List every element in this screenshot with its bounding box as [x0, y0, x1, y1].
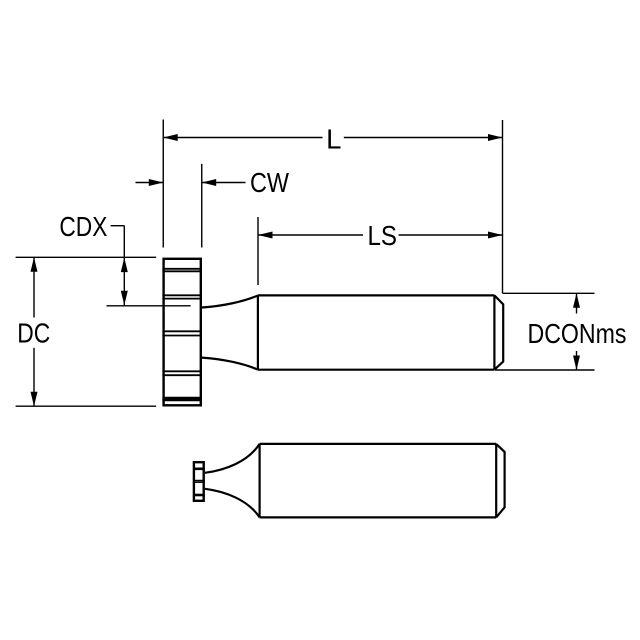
- dimension line DCONms lower segment: [576, 351, 578, 370]
- svg-text:CW: CW: [250, 167, 289, 198]
- dimension line CW right stub: [202, 182, 246, 184]
- keyseat depth line: [107, 305, 191, 307]
- extension line DCONms bottom: [495, 369, 595, 371]
- cutter tooth line 2b: [162, 298, 202, 300]
- cutter tooth line 3a: [162, 330, 202, 332]
- extension line DC top: [16, 256, 157, 258]
- cutter head body (front view): [164, 259, 201, 406]
- svg-text:DC: DC: [17, 317, 50, 348]
- shank bottom edge (side view): [260, 516, 497, 518]
- shank top edge (side view): [260, 443, 497, 445]
- cutter side tooth line 2a: [193, 480, 205, 482]
- neck top curve (front view): [202, 296, 258, 308]
- cutter tooth line 2a: [162, 294, 202, 296]
- extension line right (L/LS): [502, 120, 504, 293]
- neck bottom curve (side view): [205, 489, 260, 518]
- dimension line DC lower segment: [33, 348, 35, 406]
- extension line DC bottom: [16, 405, 157, 407]
- dimension line DCONms upper segment: [576, 293, 578, 313]
- extension line left (L/CW): [162, 120, 164, 248]
- shank bottom edge (front view): [258, 369, 495, 371]
- cutter side tooth line 2b: [193, 481, 205, 483]
- dimension line L left segment: [163, 137, 322, 139]
- arrowhead CW left: [149, 179, 163, 186]
- shank chamfer tangent line (front view): [493, 295, 495, 369]
- dimension line DC upper segment: [33, 257, 35, 317]
- dimension line CW left stub: [136, 182, 164, 184]
- arrowhead DC up: [31, 257, 38, 272]
- cutter tooth line 1b: [162, 270, 202, 272]
- arrowhead L left: [163, 134, 177, 141]
- cutter tooth line 3b: [162, 335, 202, 337]
- arrowhead CDX down: [121, 291, 128, 306]
- cutter side tooth band 3: [193, 494, 205, 497]
- arrowhead L right: [488, 134, 503, 141]
- arrowhead CDX up: [121, 258, 128, 273]
- extension line DCONms top: [503, 292, 595, 294]
- svg-text:CDX: CDX: [59, 211, 107, 242]
- cutter tooth line 4a: [162, 370, 202, 372]
- arrowhead DCONms up: [573, 293, 580, 308]
- extension line LS left: [257, 217, 259, 285]
- arrowhead LS left: [258, 232, 273, 239]
- shank end chamfer and face (front view): [494, 295, 503, 369]
- shank end chamfer and face (side view): [496, 444, 504, 518]
- svg-text:DCONms: DCONms: [528, 318, 627, 349]
- neck bottom curve (front view): [202, 358, 258, 370]
- cutter tooth line 1a: [162, 268, 202, 270]
- arrowhead LS right: [488, 232, 503, 239]
- dimension line LS right segment: [399, 234, 503, 236]
- shank top edge (front view): [258, 294, 495, 296]
- cutter side tooth band 1: [193, 467, 205, 470]
- neck top curve (side view): [205, 444, 260, 473]
- leader CDX vertical: [123, 226, 125, 306]
- cutter body (side view): [194, 462, 204, 501]
- dimension line L right segment: [344, 137, 503, 139]
- svg-text:LS: LS: [367, 220, 397, 251]
- shank left face (side view): [259, 444, 261, 518]
- cutter tooth line 4b: [162, 374, 202, 376]
- arrowhead CW right: [202, 179, 216, 186]
- shank chamfer tangent line (side view): [495, 444, 497, 518]
- cutter tooth band 5: [162, 397, 202, 402]
- svg-text:L: L: [326, 123, 341, 154]
- arrowhead DC down: [31, 392, 38, 407]
- leader CDX horizontal: [111, 225, 125, 227]
- extension line CW right: [201, 164, 203, 248]
- dimension line LS left segment: [258, 234, 363, 236]
- shank left face (front view): [257, 295, 259, 369]
- arrowhead DCONms down: [573, 356, 580, 371]
